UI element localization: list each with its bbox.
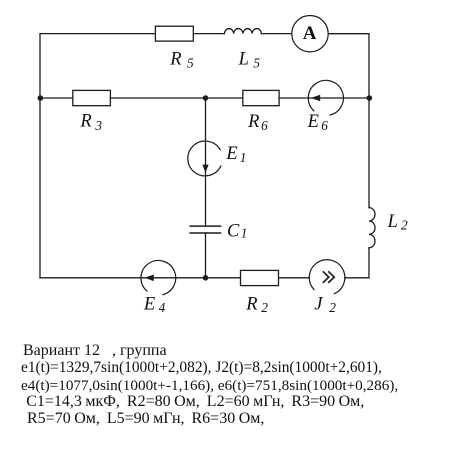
svg-text:6: 6 [261, 118, 268, 133]
wire: left node to R3 [40, 97, 73, 99]
wire: right vertical down to L2 [368, 98, 370, 208]
wire: left vertical [39, 34, 41, 278]
source E4 [141, 261, 176, 315]
svg-text:E: E [307, 112, 319, 132]
svg-text:C: C [227, 222, 240, 242]
inductor L2 [369, 208, 408, 248]
node: left middle junction [38, 95, 44, 101]
wire: R5 to L5 [193, 33, 224, 35]
svg-text:L: L [387, 212, 398, 232]
svg-text:2: 2 [261, 300, 268, 315]
wire: bottom left (through E4) to left corner [40, 277, 206, 279]
svg-text:5: 5 [253, 56, 260, 71]
svg-text:6: 6 [321, 118, 328, 133]
svg-text:R: R [79, 112, 91, 132]
wire: R2 to bottom center node [206, 277, 241, 279]
wire: C1 to bottom node [205, 233, 207, 278]
wire: E1 to C1 [205, 176, 207, 226]
node: right middle junction [367, 95, 373, 101]
svg-text:L: L [238, 49, 249, 69]
svg-text:1: 1 [241, 226, 248, 241]
svg-text:2: 2 [401, 217, 408, 232]
wire: R6 to right node (through E6) [279, 97, 369, 99]
svg-text:R: R [169, 49, 181, 69]
wire: center node down to E1 [205, 98, 207, 141]
svg-text:E: E [143, 294, 155, 314]
source E1 [188, 141, 247, 176]
ammeter A [292, 16, 328, 52]
capacitor C1 [190, 222, 247, 242]
svg-text:R: R [245, 294, 257, 314]
wire: J2 to R2 [279, 277, 310, 279]
svg-text:3: 3 [94, 118, 102, 133]
svg-text:A: A [303, 23, 317, 44]
current source J2 [309, 260, 345, 315]
inductor L5 [224, 29, 261, 71]
svg-text:2: 2 [329, 300, 336, 315]
parameters text block [23, 343, 167, 359]
node: center junction [203, 95, 209, 101]
svg-text:1: 1 [240, 150, 247, 165]
wire: L2 to bottom-right corner to J2 [345, 248, 369, 278]
resistor R3 [73, 90, 111, 133]
wire: L5 to ammeter [261, 33, 291, 35]
wire: R3 to center node [110, 97, 205, 99]
resistor R5 [155, 26, 194, 70]
resistor R2 [241, 270, 279, 315]
node: bottom center junction [203, 275, 209, 281]
wire: center node to R6 [206, 97, 243, 99]
svg-text:5: 5 [187, 56, 194, 71]
svg-text:R: R [247, 112, 259, 132]
svg-text:E: E [225, 144, 237, 164]
resistor R6 [243, 90, 279, 133]
source E6 [307, 80, 344, 133]
wire: top-left horizontal segment [40, 33, 155, 35]
wire: ammeter to top-right corner, down to right node [328, 34, 369, 98]
svg-text:4: 4 [159, 300, 166, 315]
svg-text:J: J [314, 294, 323, 314]
